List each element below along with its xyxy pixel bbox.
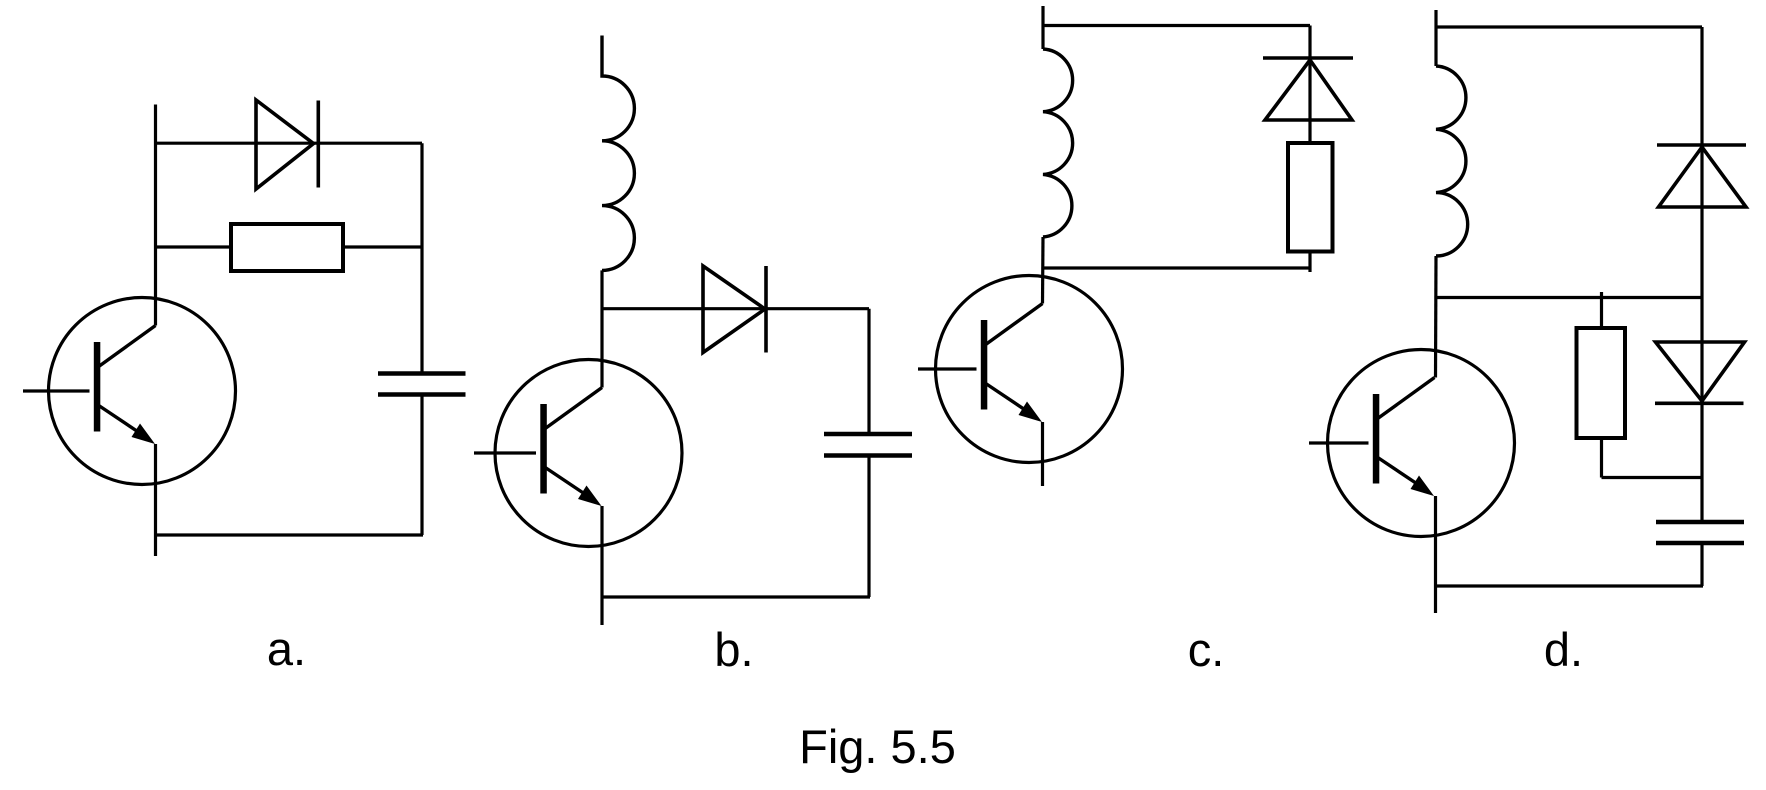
wire: b emitter vertical to bottom net — [600, 506, 603, 625]
wire: a top net horizontal (to diode) — [154, 142, 422, 145]
diode D-c (cathode up) — [1263, 58, 1353, 120]
wire: d top net horizontal — [1436, 25, 1702, 28]
capacitor C-d — [1656, 522, 1744, 543]
diode D-d1 (cathode up) — [1657, 145, 1746, 207]
wire: c diode vertical (top net through diode to resistor) — [1308, 26, 1311, 143]
wire: d inductor top stub — [1434, 10, 1437, 66]
resistor R-a — [231, 224, 343, 271]
wire: c emitter vertical (open lead) — [1041, 422, 1044, 486]
wire: a emitter vertical to bottom net — [154, 444, 157, 556]
wire: a bottom net horizontal — [156, 533, 424, 536]
svg-text:d.: d. — [1544, 623, 1583, 676]
wire: c collector vertical (coil bottom to transistor) — [1041, 237, 1045, 304]
wire: a resistor net left segment — [154, 245, 231, 248]
diode D-d2 (cathode down) — [1655, 342, 1745, 403]
transistor Q-b — [474, 360, 682, 547]
wire: b right vertical upper (diode to capacitor) — [867, 309, 870, 434]
wire: c resistor bottom stem — [1308, 252, 1311, 273]
svg-text:b.: b. — [714, 623, 753, 676]
wire: d bottom net horizontal — [1436, 584, 1704, 587]
inductor L-c — [1043, 49, 1073, 237]
inductor L-d — [1436, 66, 1468, 256]
resistor R-c — [1288, 143, 1333, 252]
wire: d resistor bottom horizontal to right rail — [1602, 476, 1703, 479]
wire: b diode net horizontal — [602, 307, 869, 310]
resistor R-d top stem — [1600, 292, 1603, 328]
svg-text:Fig. 5.5: Fig. 5.5 — [799, 720, 956, 773]
wire: d right rail lower (capacitor to bottom net) — [1700, 543, 1703, 586]
capacitor C-a — [378, 374, 466, 395]
transistor Q-c — [918, 276, 1123, 463]
diode D-b (anode left, cathode right) — [703, 266, 766, 353]
wire: d middle net horizontal (collector to right rail) — [1436, 296, 1702, 299]
wire: c top net horizontal — [1043, 24, 1310, 27]
wire: d collector vertical (coil bottom to transistor) — [1434, 256, 1438, 378]
wire: a collector vertical (top stub through top/resistor nets) — [154, 105, 157, 326]
wire: c collector net horizontal (to resistor bottom) — [1043, 266, 1310, 269]
resistor R-d — [1577, 328, 1626, 438]
inductor L-b — [602, 36, 634, 271]
wire: c inductor top stub — [1041, 6, 1044, 49]
wire: b collector vertical (coil bottom to transistor) — [600, 270, 603, 387]
capacitor C-b — [824, 434, 912, 456]
wire: d emitter vertical to bottom net — [1434, 496, 1437, 613]
wire: d resistor bottom stem — [1600, 438, 1603, 478]
wire: a resistor net right segment — [343, 245, 422, 248]
transistor Q-a — [23, 298, 236, 485]
wire: d right rail upper (top net through diodes to junction) — [1700, 27, 1703, 522]
wire: b right vertical lower (capacitor to bottom net) — [867, 456, 870, 598]
wire: a right vertical upper (top net to capacitor) — [420, 143, 423, 373]
transistor Q-d — [1309, 350, 1515, 537]
svg-text:a.: a. — [267, 622, 306, 675]
wire: b bottom net horizontal — [603, 595, 871, 598]
diode D-a (anode left, cathode right) — [256, 100, 318, 189]
wire: a right vertical lower (capacitor to bottom net) — [420, 395, 423, 536]
svg-text:c.: c. — [1188, 623, 1225, 676]
